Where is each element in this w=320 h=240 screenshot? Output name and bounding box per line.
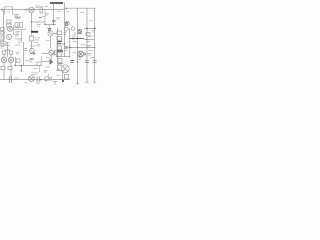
label mid6 [25,60,29,62]
wire x45 [44,10,46,25]
label [77,58,83,60]
wire h61 [42,61,51,63]
capacitor C7 [9,76,11,83]
transistor Q2 [7,26,12,31]
cluster node [65,23,70,26]
diode D1 dark bar [31,31,38,33]
label [25,82,28,84]
wire h29 [14,29,26,31]
label mid4 [86,37,92,42]
wire h38 [70,38,84,40]
junction dots h28 [86,28,95,30]
wire x21 drop [21,66,23,72]
wire Q-col [31,33,33,49]
wire drop x49 [49,25,51,29]
junction dots h47 [69,47,95,49]
wire h70 [56,70,65,72]
label [92,31,96,33]
resistor R6 [1,36,4,39]
resistor R13 [57,53,62,56]
speck top [26,9,28,11]
transistor Q7 [78,51,84,57]
transistor Q5 faint [48,31,58,48]
small marks [73,35,77,37]
wire x94 long [94,8,96,82]
transistor Q8 [1,57,6,62]
label mid2 [46,40,50,42]
wire h65 [14,65,42,67]
label mid [37,25,41,27]
label [15,77,19,79]
cluster right of x23 [25,49,28,51]
capacitor C8 [37,76,39,82]
wire h44 left [0,43,7,45]
wire mid h24 [45,24,56,26]
label [18,39,23,43]
transistor Q10 [29,76,35,82]
feet of right rails [76,82,96,84]
ground symbol [53,82,57,85]
capacitor C9 cluster [44,77,51,81]
marks [65,47,69,49]
dark dot left of lamp [58,69,60,71]
label right [86,46,91,48]
transistor Q1 [29,7,35,13]
wire box drop [39,66,41,72]
wire top rail right [65,8,96,9]
label OUT row2 [30,60,33,62]
speck under Q11 [46,57,50,59]
resistor R5 [1,28,5,35]
resistor R10 [57,31,62,35]
wire h47 [65,47,95,49]
wire x87 long [86,8,88,82]
speck [93,35,96,37]
dark dot bottom [62,80,64,82]
marks right of column [64,33,67,35]
speck [65,50,68,52]
speck rail [58,11,70,13]
diode D2 [48,29,51,31]
wire x53 [53,3,55,25]
transistor Q6 cluster [78,29,83,33]
wire h56 [56,56,70,58]
junction dot drop [21,70,23,72]
wire h28 right [84,28,96,30]
dark speck C9 [45,80,47,82]
resistor R25 [1,41,4,44]
wire x69 [69,28,71,58]
resistor R27 [9,51,13,54]
label [15,44,20,46]
label [15,17,21,19]
arrow mark [30,52,35,55]
wire h53 [42,53,48,55]
transistor Q9 [8,57,13,62]
label mid8 [46,66,50,68]
speck top2 [45,6,49,8]
wire C9 lead [48,74,50,77]
cluster dots x64-69 [64,21,69,31]
label [89,50,94,52]
wire Q1 collector down [31,13,33,31]
junction dots misc [15,21,88,80]
resistor R15 [86,33,90,36]
junction dots h38 [72,38,78,40]
wire bottom rail [0,79,70,81]
wire x41 [41,56,43,62]
wire x64 long [64,3,66,58]
capacitor C6 plates [93,61,97,63]
wire h39 right [84,39,95,41]
resistor R26 [2,51,6,54]
wire input stub [0,8,3,11]
resistor R17 [8,67,12,70]
leads above Q8 Q9 [4,55,11,58]
wire thick top net [50,2,63,4]
wire x57 [57,28,59,70]
wire h45 [0,45,10,47]
junction dot rail [66,8,68,10]
label dark OUT [30,58,34,60]
label right top [80,12,84,14]
wire left vertical 2 [7,42,9,57]
transistor Q11 [49,50,57,55]
resistor R4 [7,20,12,27]
label mid5 [16,53,20,55]
label [37,45,41,47]
label texts faint top [14,15,20,17]
label [15,17,21,19]
resistor R18 [17,59,20,63]
junction [21,65,23,67]
resistor R23 [15,23,18,28]
label above [32,73,39,75]
wire mid h22 [32,21,46,23]
junction dot bottom [40,79,42,81]
label [45,14,50,16]
dark cluster right [71,61,75,63]
wire top rail left [3,9,65,11]
label [57,18,61,20]
label [16,27,21,34]
capacitor C5 plates [85,61,89,63]
label dark [57,41,62,43]
wire x62 [62,71,64,81]
resistor R20 [58,59,62,63]
label row [1,42,10,45]
label [44,71,48,73]
label mid7 [34,68,38,70]
small box [37,62,41,66]
wire x77 long [77,8,79,84]
capacitor C2 [52,20,56,22]
label right mid [89,20,93,22]
resistor R7 [30,36,34,41]
wire x23 [23,42,25,66]
dark mark column bottom [57,42,61,44]
label [42,16,45,18]
wire x13 [13,25,15,35]
dark mark right of Q7 [84,53,86,55]
label [30,45,37,47]
label Q1 [35,6,40,8]
small circle [71,27,75,31]
wire h44 [56,43,65,45]
diode D3 dark [57,50,63,52]
label [88,54,93,56]
diode arrow end [50,60,53,65]
resistor R11 [57,37,62,41]
wire Q11 leads [50,55,52,61]
wire left vertical [3,10,5,43]
speck below C8 [37,83,40,85]
resistor R16 [1,67,5,70]
wires below [4,63,11,80]
resistor R3 [40,7,43,13]
label [15,35,20,40]
resistor R22 [65,75,69,79]
dark mark small [39,17,42,19]
resistor R12 [57,46,62,50]
speck h38 [73,33,77,42]
lamp big circle [61,65,69,73]
transistor Q3 [6,34,11,39]
transistor Q4 [30,48,35,53]
speck [57,75,61,77]
resistor R24 [20,23,23,28]
label [1,47,5,49]
wire tick [5,49,10,51]
label [81,44,87,46]
dark cluster [58,64,63,66]
label R7 [34,38,40,43]
label mid3 [73,52,77,54]
wire x15 [15,57,17,66]
wire x21 upper [21,30,23,42]
connector J1 [5,7,13,15]
label [91,57,95,59]
